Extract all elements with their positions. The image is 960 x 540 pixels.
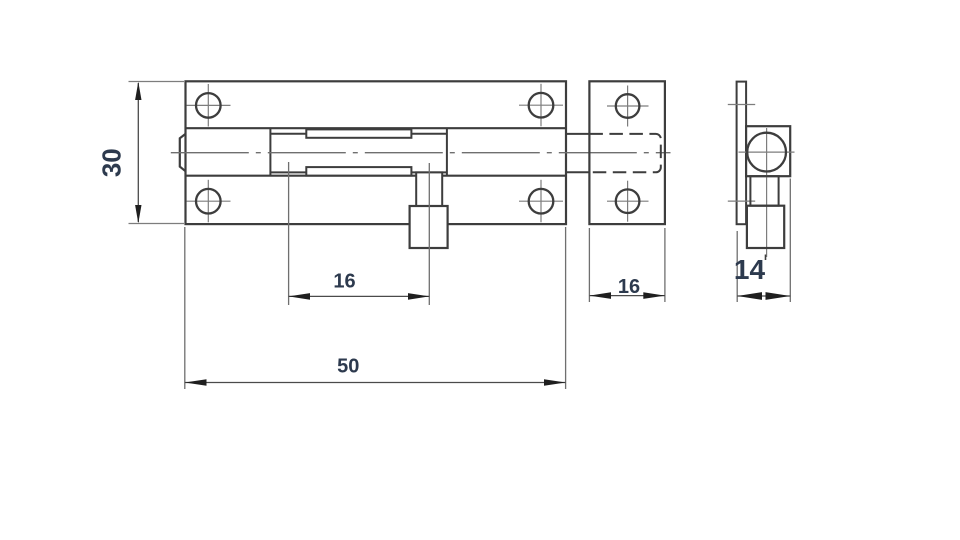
svg-text:14: 14 bbox=[734, 254, 766, 285]
keeper hole top bbox=[616, 94, 640, 118]
bolt slider left edge bbox=[269, 128, 271, 176]
slider bottom rib bbox=[306, 167, 411, 176]
dimension 16 main right extension line / handle centerline bbox=[428, 163, 430, 305]
dimension 30 label bbox=[97, 148, 127, 177]
dimension 14 line bbox=[737, 295, 790, 297]
handle stem bbox=[416, 172, 442, 206]
screw hole top-right bbox=[529, 93, 554, 118]
dimension 16 keeper arrow right bbox=[643, 292, 665, 299]
dimension 16 keeper line bbox=[589, 295, 665, 297]
dimension 50 right extension line bbox=[565, 227, 567, 389]
barrel left end cap bbox=[180, 134, 186, 171]
svg-text:16: 16 bbox=[618, 276, 640, 298]
slider top rib bbox=[306, 129, 411, 137]
dimension 16 keeper right extension line bbox=[664, 228, 666, 302]
dimension 16 main label bbox=[333, 271, 355, 293]
screw hole bottom-right bbox=[529, 189, 554, 214]
dimension 14 right extension line bbox=[789, 179, 791, 303]
handle knob bbox=[410, 206, 448, 248]
svg-text:50: 50 bbox=[337, 355, 359, 377]
side view screw tick bottom bbox=[728, 200, 755, 202]
screw hole top-left bbox=[196, 93, 221, 118]
dimension 16 keeper left extension line bbox=[588, 228, 590, 302]
screw hole crosshair top-right bbox=[519, 84, 563, 127]
barrel bottom line bbox=[186, 175, 567, 177]
keeper hole crosshair top bbox=[607, 86, 649, 127]
dimension 16 keeper label bbox=[618, 276, 640, 298]
dimension 50 arrow right bbox=[544, 379, 566, 386]
side view stem bbox=[750, 176, 778, 206]
bolt slider right edge bbox=[446, 128, 448, 176]
barrel top line bbox=[186, 127, 567, 129]
bolt slider top line bbox=[270, 133, 447, 135]
dimension 50 arrow left bbox=[185, 379, 207, 386]
dimension 16 main arrow left bbox=[289, 293, 310, 300]
side view rod circle crosshair bbox=[739, 128, 795, 257]
screw hole crosshair top-left bbox=[187, 84, 231, 127]
svg-text:16: 16 bbox=[333, 271, 355, 293]
bolt slider bottom line bbox=[270, 171, 447, 173]
side view wall strip bbox=[737, 82, 747, 225]
dimension 14 tick mark bbox=[765, 255, 767, 261]
svg-text:30: 30 bbox=[97, 148, 127, 177]
dimension 14 label bbox=[734, 254, 766, 285]
keeper hole crosshair bottom bbox=[607, 181, 649, 222]
bolt rod visible in gap top bbox=[566, 133, 591, 135]
side view knob bbox=[747, 206, 784, 248]
dimension 50 line bbox=[185, 382, 566, 384]
dimension 16 main line bbox=[289, 295, 430, 297]
dimension 30 arrow down bbox=[135, 205, 141, 223]
hidden rod dashed outline with rounded end bbox=[589, 134, 660, 172]
dimension 16 main arrow right bbox=[408, 293, 429, 300]
screw hole crosshair bottom-left bbox=[187, 180, 231, 223]
horizontal centerline axis bbox=[171, 152, 671, 154]
dimension 30 arrow up bbox=[135, 82, 141, 100]
dimension 50 label bbox=[337, 355, 359, 377]
screw hole bottom-left bbox=[196, 189, 221, 214]
main plate outline bbox=[186, 81, 567, 224]
keeper hole bottom bbox=[616, 189, 640, 213]
dimension 14 arrow right bbox=[766, 292, 791, 300]
dimension 16 main left extension line bbox=[288, 162, 290, 305]
keeper plate outline bbox=[589, 81, 665, 224]
side view rod circle bbox=[747, 133, 786, 172]
dimension 14 left extension line bbox=[736, 231, 738, 302]
dimension 14 arrow left bbox=[737, 292, 762, 300]
side view barrel block bbox=[746, 126, 790, 176]
dimension 30 line bbox=[137, 83, 139, 222]
side view screw tick top bbox=[728, 104, 755, 106]
dimension 16 keeper arrow left bbox=[589, 292, 611, 299]
dimension 30 extension line top bbox=[129, 81, 185, 83]
dimension 50 left extension line bbox=[184, 227, 186, 389]
bolt rod visible in gap bottom bbox=[566, 171, 591, 173]
screw hole crosshair bottom-right bbox=[519, 180, 563, 223]
dimension 30 extension line bottom bbox=[129, 223, 185, 225]
